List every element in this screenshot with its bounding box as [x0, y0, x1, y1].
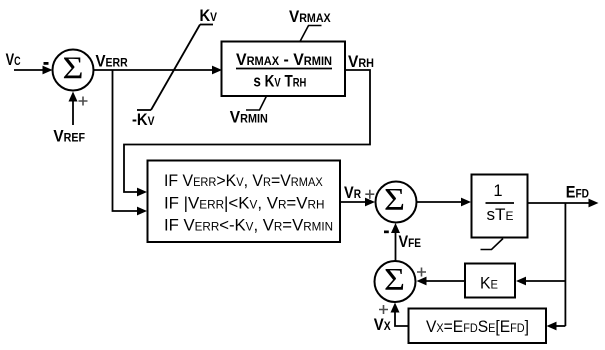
svg-text:Σ: Σ	[384, 181, 405, 217]
plus sign at summing junction S3 bottom input	[379, 305, 388, 314]
wire EFD to KE block	[526, 280, 565, 282]
B1 fraction bar	[236, 68, 332, 70]
wire VC input	[14, 69, 43, 71]
wire EFD output	[528, 202, 590, 204]
block VX saturation function	[409, 309, 547, 344]
VRMIN leader line	[246, 96, 267, 110]
plus sign at summing junction S1 bottom input	[79, 97, 88, 106]
limiter upper tick	[200, 24, 213, 26]
wire VX output to S3 bottom	[395, 313, 409, 327]
limiter gain characteristic diagonal	[151, 25, 200, 111]
svg-text:1: 1	[493, 182, 502, 200]
wire VRH feedback from B1 to IF block upper input	[124, 70, 370, 192]
integrator windup limit symbol	[481, 239, 504, 250]
svg-text:Σ: Σ	[384, 261, 405, 297]
wire from S2 to block B3	[417, 201, 462, 203]
svg-text:IF |VERR|<KV, VR=VRH: IF |VERR|<KV, VR=VRH	[164, 195, 325, 213]
summing junction S1	[53, 50, 94, 91]
B3 fraction bar	[486, 202, 515, 204]
svg-text:Σ: Σ	[63, 50, 84, 86]
wire EFD feedback tap vertical	[564, 203, 566, 326]
wire VERR from S1 to block B1	[94, 69, 213, 71]
wire KE to summing junction S3	[427, 280, 466, 282]
plus sign at summing junction S3 right input	[417, 268, 426, 277]
limiter lower tick	[137, 109, 151, 111]
wire EFD to VX block	[547, 322, 557, 331]
wire VFE from S3 up to S2	[395, 233, 397, 261]
wire VREF input	[72, 101, 74, 125]
VRMAX leader line	[300, 26, 322, 42]
block B1 rate limited transfer function	[222, 42, 346, 97]
IF logic block	[148, 161, 341, 243]
block KE	[465, 264, 515, 298]
wire VR from IF block to summing junction S2	[340, 201, 366, 203]
plus sign at summing junction S2 left input	[365, 190, 374, 199]
summing junction S2	[376, 182, 417, 223]
minus sign at summing junction S1 left input	[44, 62, 49, 65]
wire VERR drop to IF block lower input	[113, 70, 138, 211]
minus sign at summing junction S2 bottom input	[384, 231, 389, 234]
summing junction S3	[375, 261, 416, 302]
block B3 integrator 1/sTE	[472, 175, 528, 238]
